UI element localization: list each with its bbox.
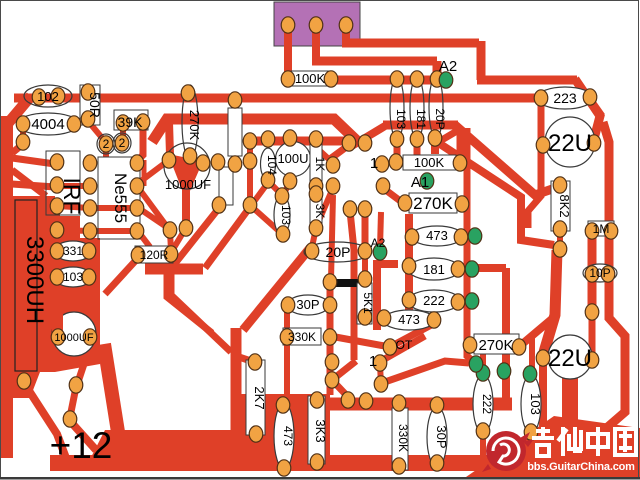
svg-text:22U: 22U (548, 345, 592, 372)
label 39K (118, 114, 144, 130)
node A2 mid (371, 236, 386, 250)
wire bar to pad x24 (6, 358, 24, 379)
pad 22U2 right (585, 352, 599, 368)
pad green 476 (469, 356, 483, 372)
pad 100K right (453, 155, 467, 171)
capacitor 103 mid outline (274, 195, 290, 235)
label IRF (59, 177, 85, 214)
pad node 381 (374, 376, 388, 392)
pad 223 right (583, 89, 597, 105)
svg-text:20P: 20P (326, 244, 351, 260)
copper pour bottom right block (466, 416, 640, 477)
resistor 8K2 body (551, 181, 570, 231)
pad 181 left (402, 258, 416, 274)
wire T1b to cap pad (169, 122, 170, 155)
pad 100U bottom (283, 173, 297, 189)
capacitor 104 outline (261, 148, 276, 180)
pad 2K7 top (248, 354, 262, 370)
wire 181 bottom down (414, 139, 421, 156)
svg-text:Ne555: Ne555 (111, 173, 130, 223)
pad 50R top (81, 84, 95, 100)
svg-text:A2: A2 (439, 58, 457, 75)
label 103 v (528, 393, 543, 415)
capacitor 1000UF big outline (52, 312, 96, 356)
label 30P (296, 297, 319, 312)
pad node 186 (179, 220, 193, 236)
svg-text:100K: 100K (414, 155, 445, 170)
wire bar to IRF pin1 (12, 158, 55, 164)
pad 1000UF1 left (162, 152, 176, 168)
wire pads row band y80 (331, 76, 444, 85)
wire x483 green feed (480, 343, 486, 371)
wire 1K bottom to 3K (314, 186, 319, 194)
pad 181t top (410, 71, 424, 87)
label 3K (313, 204, 327, 219)
label 223 (553, 90, 577, 106)
pad 473a left (405, 229, 419, 245)
pad 100K t right (324, 71, 338, 87)
svg-text:223: 223 (553, 90, 577, 106)
pad 270K right (455, 196, 469, 212)
pad 30P right (323, 297, 337, 313)
label 473 v (281, 426, 295, 446)
pad J1 pin2 (309, 17, 323, 33)
label 1K (313, 157, 327, 172)
pad node 24 (17, 373, 31, 389)
label 104 (265, 155, 279, 175)
wire diag to 8K2 bottom (437, 142, 554, 245)
wire Ne555 right diag c (137, 230, 150, 247)
pad A2 green (439, 72, 453, 88)
pad 103m top (275, 188, 289, 204)
wire Rb to 103m (252, 207, 280, 232)
svg-text:1000UF: 1000UF (165, 177, 211, 192)
pad 473b left (377, 310, 391, 326)
pad 330K2 top (392, 395, 406, 411)
svg-text:473: 473 (281, 426, 295, 446)
wire 2R2 left down (103, 146, 109, 157)
wire x532 green feed (529, 333, 535, 372)
pad 20Pt bottom (428, 130, 442, 146)
svg-text:IRF: IRF (59, 177, 85, 214)
copper bottom band (50, 455, 640, 471)
wire band y268 right (452, 264, 506, 272)
pad 3K top (309, 186, 323, 202)
wire pad333a diag up (320, 151, 333, 163)
pin 1 bottom (369, 353, 377, 370)
wire 50R bottom diag (88, 121, 103, 139)
svg-text:270K: 270K (478, 337, 513, 354)
pad 4004 right (67, 116, 81, 132)
wire x506 down (502, 268, 510, 400)
wire 3K to 20P left (312, 228, 316, 247)
wire pad250 vertical (247, 143, 253, 160)
pad 181t bottom (410, 131, 424, 147)
wire 270K3 diag up (521, 318, 553, 345)
wire diag band to pad b (205, 207, 250, 268)
svg-text:103: 103 (63, 270, 83, 284)
capacitor 103 t outline (390, 77, 404, 139)
wire 22U2 below left (539, 362, 547, 428)
pad Ne555 1 (83, 155, 97, 171)
label 20P t (433, 108, 447, 129)
copper pour bottom mass (84, 430, 330, 471)
capacitor 20P 2 outline (304, 242, 370, 262)
pad node 365 (358, 135, 372, 151)
svg-text:100K: 100K (295, 71, 326, 86)
wire 1000UF1 pads join (170, 161, 202, 163)
capacitor 20P t outline (429, 76, 443, 138)
svg-text:103: 103 (528, 393, 543, 415)
label 22U bottom (548, 345, 592, 372)
wire Ra right vertical (247, 163, 253, 204)
pad jumper right (358, 271, 372, 287)
wire cap to mass wedge (104, 344, 118, 432)
capacitor 100U outline (276, 142, 311, 177)
resistor 50R body (80, 85, 100, 125)
wire 270K left down vertical (405, 214, 413, 312)
capacitor 2R2 outline a (97, 134, 115, 154)
wire 20P bottom down (431, 138, 439, 154)
label 330K (288, 330, 316, 344)
pad 270K3 left (463, 337, 477, 353)
wire mesh d5 (332, 380, 350, 399)
wire bar to IRF pin2 (12, 184, 55, 187)
wire 5K1 left vertical (351, 281, 358, 360)
label 330K 2 (396, 424, 410, 452)
pad J1 pin1 (281, 17, 295, 33)
wire pad70 to mass (70, 421, 96, 450)
svg-text:100U: 100U (277, 151, 308, 166)
pad 22U1 right (587, 135, 601, 151)
capacitor 22U top outline (545, 117, 595, 167)
pad J1 pin3 (339, 17, 353, 33)
wire pad x24 down diag (24, 383, 66, 458)
pad 1000UF2 right (83, 329, 97, 345)
resistor 3K3 body (308, 396, 325, 464)
pad 1000UF1 right (196, 155, 210, 171)
label 2b (119, 136, 126, 150)
wire 4004 pad to bar (12, 144, 23, 153)
svg-text:330K: 330K (396, 424, 410, 452)
pad node 348 (341, 392, 355, 408)
svg-text:120R: 120R (140, 248, 169, 262)
wire from J1 pin3 down (342, 27, 350, 43)
wire x467 long vertical (467, 128, 475, 363)
svg-text:473: 473 (426, 228, 448, 243)
capacitor 181 t outline (410, 77, 424, 139)
copper pour left bar bottom tail (13, 372, 40, 398)
pad 5K1 bottom (358, 309, 372, 325)
pad 222 green (465, 293, 479, 309)
pad 8K2 bottom (553, 221, 567, 237)
pad 222v green (476, 365, 490, 381)
svg-text:222: 222 (480, 394, 494, 414)
resistor 5K1 body (357, 283, 372, 324)
pad 473v top (276, 397, 290, 413)
svg-text:1: 1 (370, 155, 378, 172)
copper pour left bar (0, 116, 13, 458)
pad 4004 left (16, 116, 30, 132)
pad 181 green (465, 261, 479, 277)
wire 30P left column (284, 305, 290, 403)
wire Ne555 right diag b (137, 207, 168, 228)
wire band y80 right (477, 76, 577, 85)
pad node 349 (342, 135, 356, 151)
label 270K vertical (187, 110, 202, 141)
pad 103m bottom (276, 226, 290, 242)
pad 20P2 right (358, 243, 372, 259)
svg-text:3K: 3K (313, 204, 327, 219)
label 1M (593, 222, 610, 236)
wire band y125 (383, 121, 458, 130)
wire band y61 to node (312, 57, 437, 66)
node A2 top (439, 58, 457, 75)
label 1000UF big (54, 332, 93, 344)
pad 3K3 bottom (310, 454, 324, 470)
label 270K 3 (478, 337, 513, 354)
wire mid band y141 (248, 137, 368, 146)
pad 39K right (136, 114, 150, 130)
wire IRF to Ne555 c (57, 230, 90, 231)
pad 100U top (283, 130, 297, 146)
pad jumper left (323, 274, 337, 290)
label 2a (103, 137, 110, 151)
svg-text:50R: 50R (87, 92, 103, 118)
wire 104 to Rb (253, 184, 267, 203)
wire pad170 to 120R (170, 232, 171, 250)
pad 102 right (51, 88, 65, 104)
pad 3K3 top (310, 392, 324, 408)
pad 1M left (585, 223, 599, 239)
pad 330K left (280, 329, 294, 345)
resistor 270K body (409, 193, 457, 213)
resistor 1M body (588, 221, 614, 236)
capacitor 473 v outline (274, 403, 294, 469)
pad 2R2 right (115, 135, 129, 151)
svg-text:4004: 4004 (31, 116, 64, 133)
pad 473v bottom (277, 460, 291, 476)
label 222 v (480, 394, 494, 414)
ic Ne555 body (98, 157, 140, 239)
pad 330K2 bottom (392, 458, 406, 474)
pad A2 mid green (373, 244, 387, 260)
svg-text:181: 181 (423, 262, 445, 277)
pad node 383b (376, 178, 390, 194)
wire T1 main horizontal (14, 94, 542, 103)
inductor 3300UH body (15, 200, 37, 371)
resistor Ra body (219, 167, 233, 205)
svg-text:3300UH: 3300UH (21, 236, 48, 324)
svg-text:3K3: 3K3 (313, 419, 328, 442)
wire Ne555 row4 (90, 228, 137, 234)
label 222 (423, 293, 445, 308)
pad 1000UF2 left (51, 329, 65, 345)
resistor 270K 3 body (474, 334, 519, 354)
pad Ne555 2 (83, 178, 97, 194)
pad Ne555 4 (83, 223, 97, 239)
pad node 168 (163, 222, 177, 238)
wire 20P bottom diag to band (435, 128, 462, 144)
pad 473a right (454, 229, 468, 245)
pad node 592 (585, 304, 599, 320)
label 120R (140, 248, 169, 262)
jumper black bar (326, 279, 367, 287)
label Ne555 (111, 173, 130, 223)
pad IRF 3 (50, 198, 64, 214)
capacitor 102 outline (24, 85, 72, 107)
pad node 366 (359, 393, 373, 409)
label 10P (589, 266, 610, 280)
wire x236 to 2K7 top (239, 357, 254, 362)
svg-text:181: 181 (414, 109, 428, 129)
svg-text:10P: 10P (589, 266, 610, 280)
label 103 mid (279, 205, 293, 225)
pin 1 mid (370, 155, 378, 172)
capacitor 103 v outline (521, 375, 541, 433)
connector J1 purple body (274, 2, 360, 46)
svg-text:+12: +12 (50, 425, 113, 466)
pad IRF 1 (50, 154, 64, 170)
resistor 3K body (310, 192, 322, 230)
svg-text:330K: 330K (288, 330, 316, 344)
pad 1K top (309, 131, 323, 147)
pad 10P left (585, 266, 599, 282)
label 22U top (548, 130, 592, 157)
pad 102 left (32, 89, 46, 105)
copper pour around 3300UH inductor (13, 196, 100, 372)
svg-text:22U: 22U (548, 130, 592, 157)
wire x236 vertical (231, 328, 242, 434)
wire 103 to cap left (54, 277, 60, 313)
pad Rb bottom (243, 197, 257, 213)
copper wedge in 1000UF cap (168, 154, 203, 200)
wire to 22U2 right pad (589, 312, 596, 358)
svg-text:222: 222 (423, 293, 445, 308)
resistor 330K 2 body (392, 408, 408, 470)
label 2K7 (252, 386, 267, 409)
svg-text:OT: OT (396, 338, 413, 352)
pad 30P2 bottom (430, 455, 444, 471)
pad 120R right (164, 246, 178, 262)
wire diag pads y143 left (330, 145, 349, 159)
pad 1K bottom (309, 178, 323, 194)
wire mesh d3 (381, 336, 425, 361)
wire Ne555 pin7 diag (137, 186, 168, 228)
wire 8K2 bottom to pad (557, 229, 563, 249)
wire 39K right to Ne555 (138, 124, 143, 160)
wire pad76 to pad70 (70, 387, 76, 417)
pad 20P2 left (305, 243, 319, 259)
pad 10P right (601, 266, 615, 282)
resistor 330K body (283, 328, 321, 345)
pad 331 right (82, 243, 96, 259)
label 270K (413, 194, 453, 213)
resistor R13 body (228, 108, 242, 156)
pad IRF 2 (50, 177, 64, 193)
wire 8K2 pad down wide (544, 250, 557, 352)
label 8K2 (557, 194, 572, 217)
wire mesh d2 (390, 324, 433, 347)
pad node 350 (343, 201, 357, 217)
pad Ne555 8 (130, 155, 144, 171)
pad IRF 4 (50, 222, 64, 238)
resistor 120R body (135, 246, 173, 263)
svg-text:1: 1 (369, 353, 377, 370)
resistor 2K7 body (246, 360, 265, 435)
wire bar to IRF pin3 (12, 204, 55, 211)
pad Ne555 3 (83, 200, 97, 216)
label 5K1 (361, 292, 375, 314)
capacitor 22U bottom outline (548, 335, 592, 379)
svg-text:2K7: 2K7 (252, 386, 267, 409)
capacitor 30P outline (287, 295, 329, 315)
pad 270K1 top (181, 85, 195, 101)
pad 104 top (261, 131, 275, 147)
pad node 332a (325, 354, 339, 370)
wire 20P right to blackbar (362, 253, 368, 277)
svg-text:270K: 270K (187, 110, 202, 141)
svg-text:2: 2 (119, 136, 126, 150)
svg-text:270K: 270K (413, 194, 453, 213)
pad 1M right (604, 223, 618, 239)
pad 103L left (50, 269, 64, 285)
wire diag to green 476 (382, 361, 469, 383)
wire pad350 down (350, 211, 354, 281)
capacitor 181 outline (408, 258, 460, 280)
svg-text:1000UF: 1000UF (54, 332, 93, 344)
pad 103v green (523, 366, 537, 382)
wire 1M left down (588, 232, 597, 312)
capacitor 10P outline (583, 264, 617, 282)
pad 22U1 left (536, 137, 550, 153)
svg-text:30P: 30P (296, 297, 319, 312)
wire Ne555 row3 (90, 205, 137, 211)
pad node 333a (326, 157, 340, 173)
wire IRF to Ne555 b (57, 206, 90, 208)
svg-text:2: 2 (103, 137, 110, 151)
pad 181 right (451, 261, 465, 277)
label 473 a (426, 228, 448, 243)
pad 103t bottom (390, 131, 404, 147)
wire 331 to 103 right (86, 251, 92, 277)
pad Rb top (243, 153, 257, 169)
capacitor 222 outline (408, 290, 460, 312)
wire T1 left diagonal to left bar (4, 96, 31, 128)
wire mesh d1 (330, 336, 390, 347)
pad R13 top (228, 92, 242, 108)
pad 30P left (281, 297, 295, 313)
wire 103v bottom down (528, 432, 534, 452)
svg-text:331: 331 (63, 244, 83, 258)
capacitor 30P 2 outline (427, 407, 447, 467)
capacitor 473 b outline (383, 310, 435, 330)
pad OT (383, 339, 397, 355)
pad 103L right (82, 269, 96, 285)
pad 104 bottom (261, 172, 275, 188)
label 100K top (295, 71, 326, 86)
wire diagonal to 22U right (575, 79, 600, 139)
capacitor 223 outline (537, 87, 593, 109)
label 30P 2 (434, 425, 449, 448)
wire band T1b (152, 119, 357, 142)
capacitor 103 outline left (54, 267, 92, 287)
svg-text:39K: 39K (118, 114, 144, 130)
pad Ne555 5 (130, 223, 144, 239)
label 331 (63, 244, 83, 258)
pad 39K left (116, 115, 130, 131)
pad Ra tr (228, 156, 242, 172)
